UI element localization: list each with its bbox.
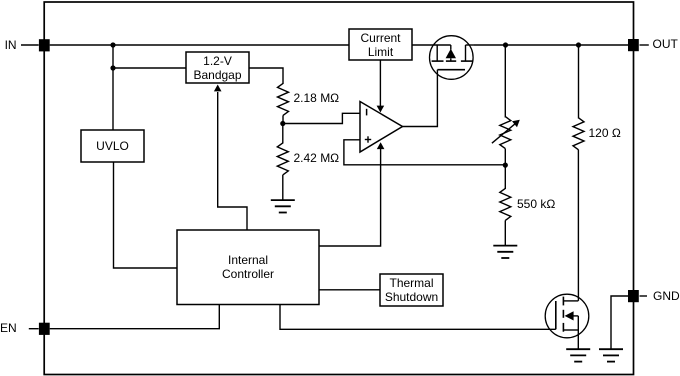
wire R2 to ground xyxy=(282,175,284,200)
pin GND stub xyxy=(640,295,648,297)
wire current limit to op-amp (arrow down) xyxy=(377,60,385,113)
wire tap to bandgap input xyxy=(113,67,186,69)
label value 2.18 Mohm xyxy=(294,91,340,105)
wire R1 to divider node xyxy=(282,115,284,123)
pin GND label xyxy=(653,289,680,303)
wire node down to R4 xyxy=(504,165,506,189)
wire OUT rail xyxy=(473,44,628,46)
ground GND pin xyxy=(599,349,623,361)
wire variable resistor to feedback node xyxy=(504,149,506,166)
resistor R1 2.18 Mohm xyxy=(278,83,289,115)
wire internal controller to bandgap (arrow up) xyxy=(214,85,247,231)
wire OUT rail down to 120 ohm xyxy=(578,45,580,119)
ground NMOS source xyxy=(566,349,590,361)
current limit box xyxy=(349,29,412,60)
label Internal Controller xyxy=(177,253,319,281)
pin IN square xyxy=(39,39,50,51)
wire R4 to ground xyxy=(504,220,506,245)
wire 120 ohm down to NMOS drain xyxy=(577,150,579,301)
wire internal controller to NMOS gate xyxy=(280,305,556,330)
node junction on IN rail xyxy=(110,42,115,47)
wire op-amp noninverting input to feedback xyxy=(344,140,505,165)
label Thermal Shutdown xyxy=(380,276,443,304)
label 1.2-V Bandgap xyxy=(186,54,249,82)
ground below R4 xyxy=(493,246,517,258)
pin EN label xyxy=(0,321,17,335)
wire op-amp output to PMOS gate xyxy=(403,70,438,127)
node feedback tap xyxy=(503,163,508,168)
node feedback divider xyxy=(280,121,285,126)
pin OUT label xyxy=(653,37,678,51)
internal controller box xyxy=(177,230,319,305)
transistor Q1 PMOS pass element xyxy=(412,36,473,80)
resistor R3 120 ohm xyxy=(573,118,584,150)
label value 120 ohm xyxy=(589,126,621,140)
wire internal controller to thermal shutdown xyxy=(319,289,380,291)
resistor R2 2.42 Mohm xyxy=(277,143,288,175)
label value 550 kohm xyxy=(517,197,555,211)
UVLO box U3 xyxy=(81,130,144,162)
pin GND square xyxy=(628,290,639,302)
node OUT rail to adjustable divider xyxy=(503,42,508,47)
variable resistor feedback top xyxy=(492,117,520,149)
pin IN stub xyxy=(21,44,39,46)
label value 2.42 Mohm xyxy=(294,151,340,165)
transistor Q2 NMOS discharge xyxy=(545,294,589,338)
pin OUT stub xyxy=(640,44,649,46)
wire bandgap output to R1 xyxy=(249,68,283,84)
wire UVLO to Internal Controller xyxy=(114,162,178,268)
node junction bandgap tap xyxy=(110,65,115,70)
label UVLO xyxy=(81,139,144,153)
wire GND pin to ground xyxy=(611,296,628,349)
wire divider down to R2 xyxy=(282,124,284,144)
pin EN square xyxy=(39,323,50,335)
wire internal controller to op-amp (arrow up) xyxy=(319,142,384,246)
label Current Limit xyxy=(349,31,412,59)
wire EN to internal controller xyxy=(50,305,220,329)
pin IN label xyxy=(5,38,17,52)
resistor R4 550 kohm xyxy=(500,188,511,220)
wire divider to op-amp inverting input xyxy=(283,113,360,123)
wire junction down to UVLO xyxy=(112,45,114,130)
wire OUT rail down to variable resistor xyxy=(504,45,506,118)
bandgap box 1.2-V Bandgap xyxy=(186,52,249,83)
pin OUT square xyxy=(628,39,639,51)
thermal shutdown box xyxy=(380,274,443,306)
ground below R2 xyxy=(271,200,295,212)
wire IN rail to Current Limit xyxy=(50,44,349,46)
node OUT rail to 120 ohm xyxy=(576,42,581,47)
op-amp U1 error amplifier xyxy=(360,102,403,153)
pin EN stub xyxy=(29,328,39,330)
wire NMOS source to ground xyxy=(577,330,579,349)
